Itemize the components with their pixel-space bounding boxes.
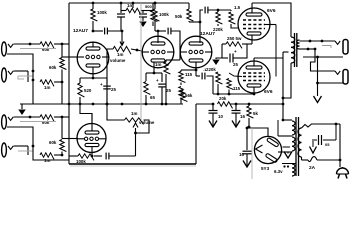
- svg-text:6.3v: 6.3v: [274, 169, 283, 174]
- resistor 115 fb: [179, 70, 193, 85]
- wire cap to pot: [108, 30, 124, 38]
- svg-text:6V6: 6V6: [264, 89, 273, 95]
- contact spk jack B: [335, 71, 340, 74]
- wire 5Y3 right: [252, 128, 290, 179]
- contact J2 tip: [8, 71, 13, 74]
- wire V1a cathode bar: [80, 77, 107, 80]
- cathode V2a: [151, 59, 165, 73]
- wire bias rails: [222, 44, 247, 59]
- transformer OPT secondary: [297, 40, 300, 49]
- svg-text:50k: 50k: [175, 14, 183, 19]
- tube 6V6 lower: [238, 61, 270, 93]
- capacitor 25 bias: [222, 49, 247, 67]
- label 6V6 upper: [267, 8, 276, 14]
- svg-text:10: 10: [218, 114, 223, 119]
- wire pot B ends: [106, 103, 149, 135]
- plate 5Y3 b: [265, 153, 277, 163]
- transformer PT sec HV top: [278, 120, 295, 135]
- ground output: [314, 57, 344, 103]
- resistor 500: [132, 2, 158, 26]
- svg-text:25: 25: [166, 88, 171, 93]
- wire J1 to grid: [54, 43, 69, 53]
- svg-text:+: +: [156, 78, 159, 83]
- capacitor line 05: [312, 124, 336, 147]
- wire J3 sleeve: [7, 127, 69, 160]
- svg-text:volume: volume: [110, 58, 126, 63]
- svg-text:5k: 5k: [253, 111, 258, 116]
- potentiometer volume B: [125, 111, 155, 125]
- wire 6V6a cathode down: [247, 43, 252, 45]
- wire sleeve A: [303, 46, 343, 59]
- wire mid bus: [20, 103, 183, 105]
- svg-text:1m: 1m: [155, 62, 161, 67]
- tube 5Y3: [254, 136, 281, 163]
- svg-text:16: 16: [240, 114, 245, 119]
- wire grid A: [61, 57, 78, 83]
- capacitor coupling 6V6a: [205, 7, 208, 14]
- wire plate to cap: [93, 30, 103, 32]
- svg-text:60k: 60k: [42, 47, 50, 52]
- label 6.3v: [274, 169, 283, 174]
- plate 6V6a: [246, 3, 262, 16]
- transformer PT primary: [298, 128, 302, 157]
- svg-text:115: 115: [185, 72, 193, 77]
- resistor 220k grid leak b: [206, 67, 222, 94]
- resistor 1m ch A: [40, 80, 54, 90]
- wire J2 gray echo: [18, 76, 33, 79]
- resistor 520 cathode: [78, 78, 92, 104]
- wire B+ line: [196, 103, 214, 106]
- label 5Y3: [261, 166, 270, 171]
- svg-text:20k: 20k: [219, 96, 227, 101]
- wire 6V6b plate: [254, 57, 283, 59]
- resistor 220k grid leak a: [213, 10, 223, 32]
- svg-text:56k: 56k: [185, 93, 193, 98]
- svg-text:5Y3: 5Y3: [261, 166, 270, 171]
- resistor 56k fb: [179, 87, 193, 105]
- contact spk jack A: [335, 41, 340, 44]
- capacitor nfb: [195, 67, 208, 79]
- wire top B+ bus: [69, 2, 189, 4]
- jack SPK A: [343, 40, 348, 55]
- cathode 6V6a: [247, 32, 261, 44]
- resistor 100k plate V1a: [91, 2, 108, 31]
- cathode V1a: [86, 64, 100, 78]
- svg-text:65: 65: [150, 95, 155, 100]
- plate V1a: [86, 42, 100, 51]
- resistor 60k grid A: [49, 53, 66, 104]
- resistor 1m grid leak V2b: [155, 60, 180, 104]
- svg-text:volume: volume: [139, 120, 155, 125]
- resistor 100k V1b: [69, 154, 102, 164]
- wire OPT sec top: [300, 40, 336, 43]
- wire OPT tap: [283, 51, 289, 53]
- wire 6V6b grid: [229, 73, 242, 77]
- wire B+ risers: [282, 52, 291, 120]
- resistor 5k tail: [181, 90, 188, 102]
- wire plate V2b up: [200, 10, 203, 22]
- wire PT bar mid: [278, 135, 292, 137]
- jack J3: [2, 115, 7, 129]
- wire OPT sec bottom: [300, 48, 317, 51]
- svg-text:100k: 100k: [76, 159, 86, 164]
- cathode V2b: [189, 59, 203, 70]
- wire grid B: [61, 139, 78, 157]
- capacitor coupling A2: [168, 28, 171, 35]
- resistor 5k bleeder: [247, 104, 259, 128]
- node V1a plate: [92, 30, 95, 33]
- transformer OPT primary: [291, 37, 295, 63]
- wire plate V2a to cap: [158, 30, 166, 32]
- resistor 65 cathode V2a: [144, 73, 156, 104]
- wire 6V6a plate to OPT: [252, 3, 291, 37]
- transformer PT sec HV bot: [292, 137, 295, 151]
- node mid bus junctions: [68, 103, 168, 106]
- svg-text:25: 25: [233, 62, 238, 67]
- wire 1m B to node: [54, 154, 62, 156]
- wire bottom rail: [69, 164, 196, 166]
- resistor 60k grid B: [49, 140, 66, 156]
- grid V2a: [142, 50, 175, 53]
- svg-text:2A: 2A: [309, 165, 316, 171]
- plate V2a: [151, 31, 165, 45]
- svg-text:250 5w: 250 5w: [227, 36, 242, 41]
- resistor 1.5k grid b: [227, 79, 241, 95]
- capacitor coupling A: [105, 28, 108, 35]
- ground PT centertap: [278, 120, 292, 158]
- tube 6V6 upper: [238, 8, 270, 40]
- ground bias: [212, 58, 222, 65]
- svg-text:115: 115: [233, 86, 241, 91]
- resistor 250 5w: [222, 36, 247, 48]
- svg-text:60k: 60k: [42, 120, 50, 125]
- svg-text:100k: 100k: [159, 12, 169, 17]
- node V2a plate: [155, 30, 159, 33]
- svg-text:500: 500: [145, 4, 152, 9]
- plate 6V6b: [246, 58, 262, 69]
- svg-text:25: 25: [111, 87, 116, 92]
- svg-text:1.5: 1.5: [234, 5, 241, 10]
- cathode V1b: [85, 143, 99, 157]
- wire fuse to plug: [317, 159, 340, 161]
- wire J3 gray echo: [20, 121, 56, 123]
- wire PT bar low: [278, 151, 292, 153]
- wire J1 sleeve: [7, 54, 34, 104]
- wire right channel drop: [140, 3, 142, 120]
- wire J4 tip: [14, 146, 29, 155]
- tube V2a 12AU7: [142, 36, 174, 68]
- wire J1 tip: [14, 43, 41, 46]
- svg-text:16: 16: [239, 152, 244, 157]
- svg-text:220k: 220k: [213, 27, 223, 32]
- jack SPK B: [343, 70, 348, 85]
- jack J1: [2, 42, 7, 56]
- ground line cap: [310, 141, 317, 153]
- resistor 100k plate V2a: [153, 2, 170, 31]
- label V2b: [200, 31, 215, 37]
- contact J3 tip: [8, 117, 13, 120]
- capacitor fb mid: [139, 11, 147, 21]
- wire J3 to grid: [54, 116, 69, 139]
- svg-text:05: 05: [325, 142, 330, 147]
- wire J1 gray echo: [20, 48, 56, 50]
- ground fb cap: [139, 17, 147, 27]
- capacitor 16 filter: [232, 104, 246, 127]
- resistor 1m fb: [121, 3, 154, 15]
- capacitor 25 V2a: [156, 73, 171, 104]
- ground mid bus: [18, 104, 26, 115]
- wire mains right: [335, 123, 342, 167]
- svg-text:60k: 60k: [49, 140, 57, 145]
- wire pot A right: [131, 49, 142, 52]
- capacitor fb left: [117, 2, 125, 31]
- wire 50k to plate V2b: [189, 21, 201, 24]
- wire J4 gray echo: [18, 150, 33, 152]
- wire pot A left: [107, 49, 113, 104]
- wire V1b plate feed: [80, 104, 92, 124]
- plug AC: [337, 168, 349, 179]
- capacitor 16 rect: [239, 128, 252, 167]
- filament 5Y3: [256, 145, 263, 153]
- potentiometer volume A: [110, 46, 131, 63]
- label V1a: [73, 28, 88, 34]
- grid rows 6V6b: [243, 73, 265, 81]
- resistor 50k: [175, 3, 193, 22]
- resistor 60k J3: [40, 115, 54, 125]
- wire 5Y3 top: [246, 127, 268, 137]
- contact J4 tip: [8, 146, 13, 149]
- wire lower grid return: [213, 93, 255, 96]
- svg-text:+: +: [234, 49, 237, 54]
- grid V1a: [77, 55, 110, 58]
- wire PT primary bottom: [302, 157, 309, 160]
- svg-text:1m: 1m: [131, 111, 137, 116]
- wire plug to mains: [342, 167, 344, 169]
- tube V1b 12AU7: [77, 124, 106, 153]
- wire B+ line2: [230, 103, 284, 106]
- wire V2a cathode bar: [146, 72, 162, 75]
- transformer PT heater: [282, 164, 296, 177]
- svg-text:1m: 1m: [117, 52, 123, 57]
- jack J4: [2, 143, 7, 157]
- svg-text:12AU7: 12AU7: [73, 28, 88, 34]
- wire right channel riser: [195, 104, 197, 164]
- resistor 60k J1: [40, 42, 54, 52]
- grid V2b: [180, 50, 213, 53]
- svg-text:60k: 60k: [49, 65, 57, 70]
- resistor 20k filter: [218, 96, 233, 108]
- svg-text:1m: 1m: [44, 158, 50, 163]
- svg-text:520: 520: [84, 88, 92, 93]
- wire B+ from filter: [247, 126, 249, 128]
- svg-text:100k: 100k: [97, 10, 107, 15]
- resistor 1.5k grid a: [229, 5, 241, 28]
- jack J2: [2, 68, 7, 82]
- wire cap to V2b grid: [171, 31, 180, 60]
- plate V1b: [85, 114, 99, 135]
- wire PT primary top switch: [302, 124, 341, 128]
- wire left rail: [68, 3, 70, 164]
- wire nfb to output: [207, 76, 214, 94]
- svg-text:+: +: [100, 82, 103, 87]
- svg-text:6V6: 6V6: [267, 8, 276, 14]
- grid rows 6V6a: [243, 20, 265, 29]
- screen stub 6V6a: [265, 25, 276, 77]
- contact J1 tip: [8, 44, 13, 47]
- svg-text:1m: 1m: [44, 85, 50, 90]
- wire cap B up: [109, 155, 136, 157]
- fuse 2A: [308, 157, 317, 171]
- capacitor 25 cathode: [100, 78, 116, 104]
- wire HV to PT: [282, 119, 292, 122]
- capacitor 10 filter: [209, 104, 224, 127]
- svg-text:220k: 220k: [206, 67, 216, 72]
- plate V2b: [189, 22, 203, 45]
- resistor 1m ch B: [40, 153, 54, 163]
- wiper arrow pot A: [120, 38, 124, 46]
- transformer OPT core: [295, 33, 297, 67]
- tube V1a 12AU7: [77, 42, 109, 74]
- wire 1m to node: [54, 81, 62, 83]
- capacitor coupling B: [106, 153, 109, 160]
- wire to spk jack B: [311, 49, 336, 71]
- label 6V6 lower: [264, 89, 273, 95]
- wire V2b cathode net: [181, 69, 196, 71]
- grid V1b: [77, 137, 106, 140]
- cathode 6V6b: [247, 84, 261, 94]
- wire J3 tip: [14, 116, 41, 119]
- transformer PT core: [296, 117, 299, 176]
- plate 5Y3 a: [267, 137, 279, 147]
- wiper arrow pot B: [133, 123, 138, 156]
- wire J2 tip: [14, 71, 29, 82]
- wire 5k to rect: [247, 127, 249, 128]
- tube V2b 12AU7: [180, 36, 212, 68]
- wire to grid stopper: [208, 9, 231, 12]
